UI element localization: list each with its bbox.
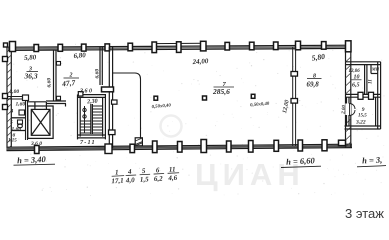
wall left outer — [7, 47, 11, 151]
small rooms 4/5/6 left — [8, 95, 29, 140]
column marks on top wall — [10, 41, 352, 53]
partition end pier — [135, 138, 142, 146]
canopy line above top wall — [154, 42, 204, 44]
svg-text:1,60: 1,60 — [16, 102, 26, 108]
stair treads right flight — [92, 106, 102, 133]
svg-text:7-11: 7-11 — [80, 139, 96, 146]
room 9 right inner wall — [375, 97, 377, 126]
elevator door ticks — [34, 102, 36, 109]
svg-text:3,6 0: 3,6 0 — [30, 141, 42, 147]
svg-text:6,5: 6,5 — [352, 83, 360, 89]
svg-text:6,2: 6,2 — [154, 175, 164, 183]
column block on divider wall at duct cap — [102, 87, 114, 92]
svg-text:6,60: 6,60 — [95, 69, 101, 79]
svg-text:11: 11 — [169, 165, 176, 173]
handwritten fractions row — [111, 165, 180, 185]
wall room7|room8 — [293, 47, 296, 146]
svg-text:3 этаж: 3 этаж — [345, 206, 384, 221]
stair flight arrow — [83, 106, 86, 133]
wall room2 bottom — [46, 101, 66, 107]
scan noise speckle — [10, 44, 384, 196]
handwritten h=3,40 — [14, 154, 56, 166]
room 9 bottom wall — [345, 125, 381, 127]
column at wall end — [23, 95, 29, 101]
stair right wall — [102, 97, 104, 136]
column marks on bottom wall — [35, 140, 346, 154]
svg-text:5: 5 — [142, 167, 146, 175]
wall top outer — [8, 45, 351, 50]
svg-text:12,00: 12,00 — [282, 99, 291, 113]
wall main divider left|room7 — [109, 47, 112, 148]
door arcs room8 to annex — [345, 104, 355, 116]
svg-text:2,30: 2,30 — [86, 99, 98, 106]
staircase block — [78, 95, 107, 140]
svg-text:h = 3,: h = 3, — [362, 154, 383, 165]
wall right outer (east of room 8) — [346, 46, 351, 148]
stair top wall — [78, 94, 107, 96]
column bumps on wall room7|room8 — [291, 72, 298, 77]
column bumps on divider wall — [109, 130, 116, 135]
column at wall B base below stairs — [105, 144, 112, 154]
svg-text:6: 6 — [156, 166, 160, 174]
block top wall — [346, 61, 381, 63]
svg-text:285,6: 285,6 — [212, 87, 230, 96]
svg-text:17,1: 17,1 — [111, 177, 124, 186]
svg-text:1: 1 — [115, 168, 119, 176]
svg-text:1,15: 1,15 — [8, 139, 17, 144]
elevator shaft — [28, 102, 53, 138]
wall room3|room2 — [54, 50, 57, 102]
divider room10|11 — [364, 65, 366, 95]
handwritten h=3, right — [357, 154, 386, 166]
svg-text:5: 5 — [10, 120, 13, 126]
svg-text:1,5: 1,5 — [140, 175, 150, 183]
ticks on left outer wall — [3, 43, 8, 110]
svg-text:МП: МП — [371, 67, 380, 72]
svg-text:5,80: 5,80 — [311, 52, 326, 63]
wall top of room4 — [8, 96, 28, 98]
svg-text:24,00: 24,00 — [191, 57, 209, 66]
room 9 left wall — [346, 97, 348, 126]
svg-text:11: 11 — [369, 79, 374, 84]
svg-text:4,0: 4,0 — [125, 176, 136, 185]
tick on wall A near bottom — [57, 96, 61, 100]
partition line room 7 with rounded corner — [113, 73, 141, 138]
svg-text:6,80: 6,80 — [73, 51, 86, 60]
interior columns room 7 — [154, 94, 255, 100]
ticks on annex divider — [358, 92, 363, 99]
wall room3 bottom over elevator — [28, 101, 47, 103]
svg-text:h = 6,60: h = 6,60 — [286, 155, 316, 167]
svg-text:0,50х0,40: 0,50х0,40 — [250, 102, 270, 109]
svg-text:69,8: 69,8 — [307, 81, 320, 89]
svg-text:5,80: 5,80 — [24, 53, 37, 62]
svg-text:0,50х0,40: 0,50х0,40 — [151, 103, 171, 110]
svg-text:3,6 0: 3,6 0 — [79, 89, 92, 95]
svg-text:9: 9 — [362, 107, 365, 113]
svg-text:6,60: 6,60 — [47, 78, 53, 88]
divider below rooms 10/11 — [346, 93, 381, 95]
right annex block — [345, 62, 381, 129]
stair bottom wall — [78, 134, 106, 136]
tick on wall A upper — [57, 62, 61, 66]
duct wall right of room2 — [100, 47, 102, 85]
divider 4|5 — [12, 117, 26, 119]
svg-text:3,22: 3,22 — [355, 120, 366, 126]
tiny room top-right box — [370, 65, 372, 74]
divider 5|6 — [12, 130, 26, 132]
handwritten h=6,60 — [281, 155, 321, 167]
block right wall — [377, 62, 379, 129]
tick at stair top-left — [78, 92, 83, 96]
svg-text:4,6: 4,6 — [167, 174, 178, 183]
svg-text:4: 4 — [127, 168, 132, 176]
column bump on wall B at stairs top — [112, 100, 118, 104]
svg-text:12,06: 12,06 — [349, 69, 361, 74]
toilet fixture — [18, 120, 23, 124]
svg-text:4: 4 — [10, 109, 14, 115]
stair left wall — [77, 95, 79, 140]
wall bottom outer — [7, 144, 353, 150]
svg-text:47,7: 47,7 — [61, 78, 76, 88]
svg-text:36,3: 36,3 — [24, 72, 38, 81]
svg-text:2,00: 2,00 — [9, 89, 20, 95]
svg-text:h = 3,40: h = 3,40 — [17, 154, 47, 166]
stair treads left flight — [81, 121, 91, 133]
sink fixture — [19, 110, 25, 115]
svg-text:15,5: 15,5 — [358, 114, 367, 119]
wall right of small rooms — [25, 99, 27, 140]
stair center divider — [90, 104, 92, 134]
svg-text:2,00: 2,00 — [341, 105, 347, 116]
